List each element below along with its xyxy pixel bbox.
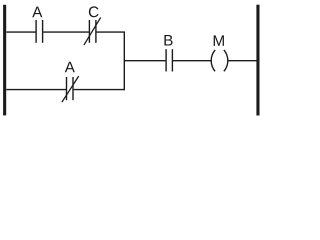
- wire: contact A2 to branch junction: [74, 89, 125, 91]
- label M: [214, 35, 224, 46]
- contact C (normally closed): [84, 17, 101, 45]
- wire: contact B to coil M: [173, 60, 212, 62]
- wire: contact C to branch junction: [97, 31, 125, 33]
- wire: bottom branch, left rail to contact A2: [6, 89, 66, 91]
- wire: junction to contact B: [124, 60, 165, 62]
- right power rail: [256, 5, 259, 116]
- label A (bottom contact): [65, 62, 75, 73]
- label C: [89, 6, 99, 17]
- coil M (output coil parentheses): [211, 50, 228, 71]
- contact A (normally open): [36, 20, 43, 43]
- wire: contact A to contact C: [43, 31, 89, 33]
- wire: branch vertical connector: [123, 32, 125, 91]
- contact B (normally open): [166, 49, 172, 71]
- left power rail: [3, 5, 6, 116]
- label A (top contact): [32, 7, 42, 18]
- wire: coil M to right rail: [228, 60, 257, 62]
- wire: top branch, left rail to contact A: [6, 31, 35, 33]
- label B: [164, 35, 172, 46]
- contact A2 (normally closed, parallel branch): [62, 76, 79, 102]
